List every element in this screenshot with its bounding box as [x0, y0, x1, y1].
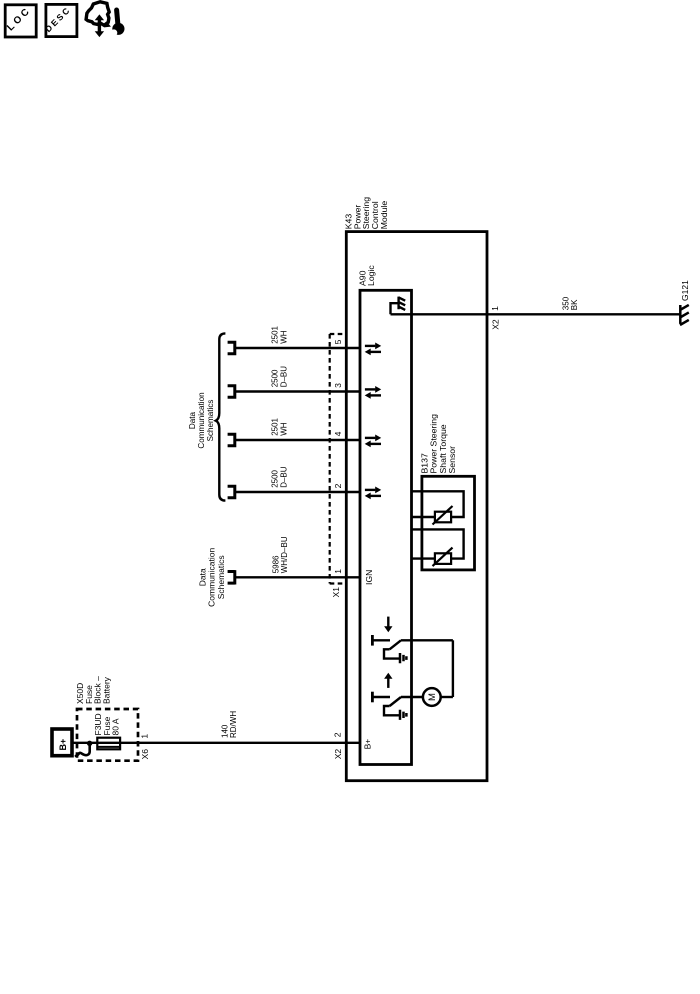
svg-text:4: 4 — [333, 431, 343, 436]
wire 2501 WH (pin 4) — [235, 439, 360, 441]
svg-text:1: 1 — [490, 306, 500, 311]
hyperlink box LOC — [5, 5, 36, 37]
data arrows pin 3 — [365, 386, 382, 399]
driver 2 contact line — [372, 696, 390, 698]
driver 2 switch arm — [390, 697, 401, 706]
svg-text:1: 1 — [140, 734, 150, 739]
svg-text:1: 1 — [333, 569, 343, 574]
svg-text:X2: X2 — [333, 749, 343, 760]
connector fork, wire 2500 pin 3 — [228, 384, 235, 398]
service icon: wrench — [111, 10, 125, 36]
driver 2 contact tick — [371, 692, 374, 703]
wire 5986 WH/D-BU (pin 1, IGN) — [235, 576, 360, 578]
wire: A90 to sensor element 2 — [412, 557, 435, 559]
data arrows pin 5 — [365, 343, 382, 356]
wire 2501 WH (pin 5) — [235, 347, 360, 349]
driver 1 switch arm — [390, 640, 401, 649]
svg-text:5: 5 — [333, 339, 343, 344]
connector fork, wire 5986 pin 1 — [228, 570, 235, 584]
wire 140 RD/WH: B+ to module X2-2 — [72, 742, 360, 744]
wire: sensor 1 loop — [412, 491, 464, 517]
svg-text:2: 2 — [333, 483, 343, 488]
wire 2500 D-BU (pin 3) — [235, 390, 360, 392]
wire: driver 1 to motor loop — [401, 639, 453, 641]
service icon: vehicle outline — [86, 2, 109, 26]
svg-text:3: 3 — [333, 383, 343, 388]
svg-text:B+: B+ — [363, 739, 373, 750]
connector fork, wire 2501 pin 4 — [228, 433, 235, 447]
driver 2 arrow (up) — [384, 673, 392, 688]
internal ground hook wire in A90 — [391, 303, 399, 314]
driver 1 contact line — [372, 639, 390, 641]
driver 2 ground hook wire — [384, 706, 399, 715]
A90 logic box — [360, 290, 412, 764]
svg-text:X2: X2 — [491, 319, 501, 330]
junction dot in fuse block — [87, 741, 92, 746]
svg-text:IGN: IGN — [364, 570, 374, 585]
internal chassis ground symbol — [398, 297, 405, 310]
sensor element 2 (torque sensing resistor) — [433, 548, 453, 567]
connector fork, wire 2500 pin 2 — [228, 485, 235, 499]
ground G121 — [680, 305, 689, 325]
sensor element 1 (torque sensing resistor) — [433, 506, 453, 525]
connector X1 dashed outline — [330, 334, 344, 584]
module K43 box — [346, 232, 487, 781]
service icon: up-down arrow — [95, 14, 104, 37]
wire: driver 2 to motor — [401, 696, 423, 698]
data arrows pin 2 — [365, 487, 382, 500]
pigtail curl — [76, 743, 90, 756]
wire 2500 D-BU (pin 2) — [235, 491, 360, 493]
connector fork, wire 2501 pin 5 — [228, 341, 235, 355]
motor M — [423, 688, 441, 706]
fuse block X50D dashed box — [77, 709, 138, 761]
driver 2 ground — [400, 710, 406, 720]
driver 1 ground — [400, 653, 406, 663]
svg-text:X1: X1 — [331, 587, 341, 598]
wire: motor to loop — [441, 696, 453, 698]
svg-text:2: 2 — [332, 732, 342, 737]
fuse F3UD symbol — [97, 738, 120, 750]
wire: motor loop vertical — [452, 640, 454, 697]
wire 350 BK: A90 to G121 — [391, 313, 681, 315]
driver 1 arrow (down) — [384, 617, 392, 633]
battery feed B+ terminal — [52, 729, 72, 756]
hyperlink box DESC — [43, 4, 77, 36]
sensor B137 box — [422, 476, 475, 570]
svg-text:B+: B+ — [58, 739, 68, 751]
driver 1 ground hook wire — [384, 649, 399, 658]
data arrows pin 4 — [365, 435, 382, 448]
wire: A90 to sensor element 1 — [412, 516, 435, 518]
svg-text:X6: X6 — [140, 749, 150, 760]
driver 1 contact tick — [371, 635, 374, 646]
wire: sensor 2 loop — [412, 529, 464, 558]
svg-text:M: M — [427, 693, 438, 701]
svg-text:G121: G121 — [680, 280, 690, 301]
brace: data wires group — [216, 333, 226, 500]
